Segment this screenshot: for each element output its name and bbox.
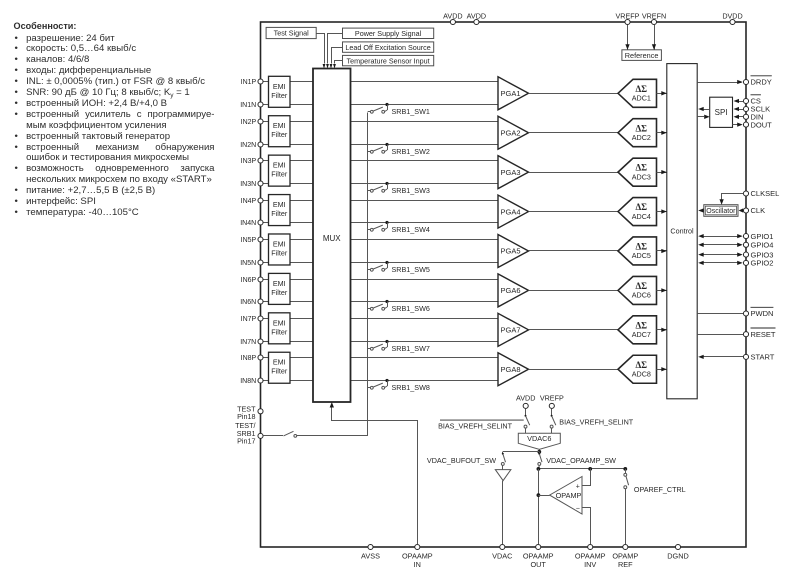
svg-text:ΔΣ: ΔΣ xyxy=(636,202,648,212)
svg-text:IN2P: IN2P xyxy=(241,119,257,126)
svg-text:SRB1_SW7: SRB1_SW7 xyxy=(392,344,430,353)
svg-text:ΔΣ: ΔΣ xyxy=(636,84,648,94)
svg-text:Power Supply Signal: Power Supply Signal xyxy=(355,29,422,38)
svg-text:IN1P: IN1P xyxy=(241,79,257,86)
pin GPIO3 xyxy=(743,250,773,259)
wire Temperature Sensor Input to MUX xyxy=(333,61,342,69)
wire START to Control xyxy=(698,355,743,359)
wire Control to GPIO1 xyxy=(698,234,743,238)
EMI filter channel 5 xyxy=(269,234,291,265)
svg-text:IN5P: IN5P xyxy=(241,237,257,244)
svg-text:PGA7: PGA7 xyxy=(500,326,520,335)
pin OPAAMP IN (bottom) xyxy=(402,544,433,569)
svg-text:PGA6: PGA6 xyxy=(500,286,520,295)
svg-text:PGA4: PGA4 xyxy=(500,207,520,216)
wire Control to PWDN xyxy=(697,313,743,315)
svg-text:IN5N: IN5N xyxy=(240,260,256,267)
EMI filter channel 3 xyxy=(269,155,291,186)
pin AVDD (top) xyxy=(443,11,462,24)
switch on TEST/SRB1 line xyxy=(263,431,368,437)
block SPI xyxy=(710,97,733,127)
wire Control to GPIO4 xyxy=(698,243,743,247)
svg-text:GPIO4: GPIO4 xyxy=(751,241,774,250)
EMI filter channel 2 xyxy=(269,116,291,147)
svg-text:AVDD: AVDD xyxy=(467,11,486,20)
svg-text:Filter: Filter xyxy=(271,288,288,297)
svg-text:+: + xyxy=(576,483,580,490)
switch SRB1_SW2 xyxy=(368,143,430,156)
pin TEST/SRB1 Pin17 xyxy=(235,421,263,445)
pin IN7P xyxy=(241,316,263,323)
svg-text:IN4P: IN4P xyxy=(241,198,257,205)
pin GPIO2 xyxy=(743,259,773,268)
pin OPAMP REF (bottom) xyxy=(612,544,638,569)
pin IN4P xyxy=(241,198,263,205)
switch BIAS_VREFH_SELINT (AVDD side) xyxy=(438,409,530,434)
amplifier PGA4 xyxy=(498,195,529,228)
wire DIN to SPI xyxy=(734,115,744,119)
adc ADC5 xyxy=(618,237,657,265)
wire Control to DRDY xyxy=(697,80,743,84)
wire VREFN to Reference xyxy=(652,25,656,50)
svg-text:IN1N: IN1N xyxy=(240,102,256,109)
wire Lead Off Excitation Source to MUX xyxy=(330,48,343,69)
wire IN7N to PGA7 (-) xyxy=(261,341,499,343)
wire SPI to Control xyxy=(698,107,710,111)
svg-text:AVSS: AVSS xyxy=(361,552,380,561)
svg-text:ΔΣ: ΔΣ xyxy=(636,320,648,330)
switch VDAC_BUFOUT_SW xyxy=(427,452,506,470)
EMI filter channel 6 xyxy=(269,273,291,304)
svg-text:VDAC_BUFOUT_SW: VDAC_BUFOUT_SW xyxy=(427,456,496,465)
wire IN3N to PGA3 (-) xyxy=(261,183,499,185)
wire OPAMP output xyxy=(538,495,549,497)
svg-text:Filter: Filter xyxy=(271,209,288,218)
svg-text:BIAS_VREFH_SELINT: BIAS_VREFH_SELINT xyxy=(559,417,634,426)
svg-text:Oscillator: Oscillator xyxy=(706,208,736,215)
svg-text:DRDY: DRDY xyxy=(751,78,772,87)
svg-text:ΔΣ: ΔΣ xyxy=(636,360,648,370)
node VREFP (internal) xyxy=(540,394,564,409)
pin IN5N xyxy=(240,260,263,267)
wire buffer to VDAC pin xyxy=(502,481,504,545)
wire OPAMP - input to OPAAMP INV xyxy=(583,508,591,545)
svg-text:IN6P: IN6P xyxy=(241,277,257,284)
switch BIAS_VREFH_SELINT (VREFP side) xyxy=(550,409,634,434)
svg-text:SRB1_SW1: SRB1_SW1 xyxy=(392,107,430,116)
svg-text:Filter: Filter xyxy=(271,130,288,139)
svg-text:ADC8: ADC8 xyxy=(632,369,651,378)
wire IN7P to PGA7 (+) xyxy=(261,318,499,320)
wire PGA1 to ADC1 xyxy=(529,93,619,95)
block Control xyxy=(667,64,697,399)
wire PGA8 to ADC8 xyxy=(529,369,619,371)
pin IN3N xyxy=(240,181,263,188)
svg-text:IN4N: IN4N xyxy=(240,220,256,227)
wire PGA2 to ADC2 xyxy=(529,132,619,134)
svg-text:CLKSEL: CLKSEL xyxy=(751,189,780,198)
amplifier PGA1 xyxy=(498,77,529,110)
op-amp OPAMP xyxy=(550,477,582,515)
amplifier PGA3 xyxy=(498,156,529,189)
pin OPAAMP OUT (bottom) xyxy=(523,544,554,569)
wire ADC7 to Control xyxy=(657,328,667,332)
svg-text:Test Signal: Test Signal xyxy=(274,29,310,38)
svg-text:SPI: SPI xyxy=(715,108,728,117)
svg-text:CLK: CLK xyxy=(751,206,766,215)
svg-text:VDAC: VDAC xyxy=(492,552,512,561)
svg-text:ΔΣ: ΔΣ xyxy=(636,281,648,291)
wire PGA6 to ADC6 xyxy=(529,290,619,292)
pin AVDD (top) xyxy=(467,11,486,24)
wire IN6P to PGA6 (+) xyxy=(261,279,499,281)
svg-text:VDAC_OPAAMP_SW: VDAC_OPAAMP_SW xyxy=(546,456,616,465)
svg-text:GPIO1: GPIO1 xyxy=(751,232,774,241)
svg-text:−: − xyxy=(576,506,580,513)
svg-text:IN3N: IN3N xyxy=(240,181,256,188)
wire ADC8 to Control xyxy=(657,367,667,371)
svg-text:Control: Control xyxy=(670,226,694,235)
svg-text:EMI: EMI xyxy=(273,279,286,288)
svg-text:EMI: EMI xyxy=(273,358,286,367)
wire ADC6 to Control xyxy=(657,288,667,292)
switch OPAREF_CTRL xyxy=(624,469,686,544)
pin VREFN (top) xyxy=(642,11,666,24)
pin CLKSEL xyxy=(743,189,779,198)
svg-text:PGA1: PGA1 xyxy=(500,89,520,98)
pin IN6N xyxy=(240,299,263,306)
wire CLK to Oscillator xyxy=(739,208,744,212)
switch SRB1_SW5 xyxy=(368,261,430,274)
pin GPIO4 xyxy=(743,241,773,250)
adc ADC7 xyxy=(618,316,657,344)
wire VREFP to Reference xyxy=(625,25,629,50)
pin IN2P xyxy=(241,119,263,126)
pin OPAAMP INV (bottom) xyxy=(575,544,606,569)
wire Control to RESET xyxy=(697,334,743,336)
svg-text:EMI: EMI xyxy=(273,239,286,248)
EMI filter channel 1 xyxy=(269,76,291,107)
wire PGA5 to ADC5 xyxy=(529,250,619,252)
svg-text:Reference: Reference xyxy=(625,51,659,60)
node AVDD (internal) xyxy=(516,394,535,409)
pin IN7N xyxy=(240,339,263,346)
wire IN1P to PGA1 (+) xyxy=(261,81,499,83)
svg-text:MUX: MUX xyxy=(323,234,341,243)
wire IN8P to PGA8 (+) xyxy=(261,357,499,359)
chip outline xyxy=(261,22,747,547)
svg-text:SRB1_SW4: SRB1_SW4 xyxy=(392,225,430,234)
svg-text:EMI: EMI xyxy=(273,161,286,170)
svg-text:IN6N: IN6N xyxy=(240,299,256,306)
svg-text:DVDD: DVDD xyxy=(722,11,742,20)
pin CLK xyxy=(743,206,765,215)
pin CS xyxy=(743,95,760,106)
svg-text:Filter: Filter xyxy=(271,170,288,179)
svg-text:IN: IN xyxy=(414,560,421,569)
wire opamp positive rail xyxy=(537,467,628,471)
wire IN2N to PGA2 (-) xyxy=(261,144,499,146)
wire ADC4 to Control xyxy=(657,209,667,213)
svg-text:EMI: EMI xyxy=(273,200,286,209)
dac VDAC6 xyxy=(518,433,560,449)
svg-text:OPAMP: OPAMP xyxy=(556,491,582,500)
svg-text:SRB1_SW6: SRB1_SW6 xyxy=(392,304,430,313)
svg-text:IN7P: IN7P xyxy=(241,316,257,323)
pin SCLK xyxy=(743,105,770,114)
pin IN3P xyxy=(241,158,263,165)
wire ADC2 to Control xyxy=(657,131,667,135)
pin IN4N xyxy=(240,220,263,227)
svg-text:Filter: Filter xyxy=(271,91,288,100)
switch SRB1_SW4 xyxy=(368,221,430,234)
wire VDAC6 output to VDAC_BUFOUT_SW xyxy=(503,451,540,453)
wire SPI to DOUT xyxy=(733,122,743,126)
block Test Signal xyxy=(266,27,316,38)
svg-text:ΔΣ: ΔΣ xyxy=(636,123,648,133)
svg-text:BIAS_VREFH_SELINT: BIAS_VREFH_SELINT xyxy=(438,422,513,431)
wire ADC1 to Control xyxy=(657,91,667,95)
svg-text:Filter: Filter xyxy=(271,248,288,257)
svg-text:SRB1_SW3: SRB1_SW3 xyxy=(392,186,430,195)
svg-text:IN7N: IN7N xyxy=(240,339,256,346)
adc ADC2 xyxy=(618,119,657,147)
svg-text:RESET: RESET xyxy=(751,330,776,339)
pin PWDN xyxy=(743,307,773,318)
svg-text:OUT: OUT xyxy=(530,560,546,569)
EMI filter channel 7 xyxy=(269,313,291,344)
wire SCLK to SPI xyxy=(734,107,744,111)
wire Control to GPIO3 xyxy=(698,252,743,256)
wire IN3P to PGA3 (+) xyxy=(261,160,499,162)
adc ADC1 xyxy=(618,79,657,107)
svg-text:START: START xyxy=(751,353,775,362)
wire ADC3 to Control xyxy=(657,170,667,174)
amplifier PGA7 xyxy=(498,313,529,346)
pin DVDD (top) xyxy=(722,11,742,24)
svg-text:VREFP: VREFP xyxy=(616,11,640,20)
svg-text:ΔΣ: ΔΣ xyxy=(636,163,648,173)
wire Power Supply Signal to MUX xyxy=(326,34,342,69)
switch SRB1_SW8 xyxy=(368,379,430,392)
wire IN5N to PGA5 (-) xyxy=(261,262,499,264)
block Lead Off Excitation Source xyxy=(343,42,434,52)
wire node to OPAAMP OUT xyxy=(537,469,541,544)
svg-text:PGA2: PGA2 xyxy=(500,128,520,137)
svg-text:ADC4: ADC4 xyxy=(632,212,651,221)
wire Control to GPIO2 xyxy=(698,261,743,265)
block Power Supply Signal xyxy=(343,28,434,38)
switch SRB1_SW6 xyxy=(368,300,430,313)
svg-text:DOUT: DOUT xyxy=(751,120,773,129)
svg-text:ADC1: ADC1 xyxy=(632,94,651,103)
svg-text:ADC6: ADC6 xyxy=(632,291,651,300)
switch SRB1_SW7 xyxy=(368,340,430,353)
svg-text:EMI: EMI xyxy=(273,82,286,91)
pin VDAC (bottom) xyxy=(492,544,512,560)
switch VDAC_OPAAMP_SW xyxy=(538,452,616,469)
svg-text:IN8N: IN8N xyxy=(240,378,256,385)
wire OPAAMP IN to MUX xyxy=(330,402,418,545)
pin DGND (bottom) xyxy=(667,544,689,560)
pin DOUT xyxy=(743,120,772,129)
svg-text:Temperature Sensor Input: Temperature Sensor Input xyxy=(347,56,430,65)
SRB1 bus wire xyxy=(367,113,369,436)
EMI filter channel 8 xyxy=(269,352,291,383)
svg-text:Pin18: Pin18 xyxy=(237,412,255,421)
svg-text:GPIO2: GPIO2 xyxy=(751,259,774,268)
pin DIN xyxy=(743,113,763,122)
svg-text:VREFP: VREFP xyxy=(540,394,564,403)
svg-text:SRB1_SW8: SRB1_SW8 xyxy=(392,383,430,392)
EMI filter channel 4 xyxy=(269,195,291,226)
svg-text:Filter: Filter xyxy=(271,367,288,376)
svg-text:ΔΣ: ΔΣ xyxy=(636,242,648,252)
buffer amplifier (VDAC) xyxy=(495,470,511,481)
adc ADC3 xyxy=(618,158,657,186)
pin IN1N xyxy=(240,102,263,109)
svg-text:AVDD: AVDD xyxy=(516,394,535,403)
svg-text:INV: INV xyxy=(584,560,596,569)
pin AVSS (bottom) xyxy=(361,544,380,560)
wire Test Signal to MUX xyxy=(317,34,326,69)
wire PGA3 to ADC3 xyxy=(529,172,619,174)
amplifier PGA2 xyxy=(498,116,529,149)
adc ADC6 xyxy=(618,276,657,304)
wire IN4N to PGA4 (-) xyxy=(261,222,499,224)
pin IN6P xyxy=(241,277,263,284)
amplifier PGA5 xyxy=(498,234,529,267)
svg-text:IN3P: IN3P xyxy=(241,158,257,165)
svg-text:OPAREF_CTRL: OPAREF_CTRL xyxy=(634,485,686,494)
svg-text:ADC3: ADC3 xyxy=(632,172,651,181)
svg-text:AVDD: AVDD xyxy=(443,11,462,20)
adc ADC4 xyxy=(618,198,657,226)
wire IN6N to PGA6 (-) xyxy=(261,301,499,303)
pin RESET xyxy=(743,328,775,339)
svg-text:PGA3: PGA3 xyxy=(500,168,520,177)
wire OPAMP + input xyxy=(583,469,591,486)
wire IN1N to PGA1 (-) xyxy=(261,104,499,106)
adc ADC8 xyxy=(618,355,657,383)
pin START xyxy=(743,353,774,362)
svg-text:SRB1_SW2: SRB1_SW2 xyxy=(392,147,430,156)
pin GPIO1 xyxy=(743,232,773,241)
switch SRB1_SW3 xyxy=(368,182,430,195)
pin DRDY xyxy=(743,76,771,87)
svg-text:ADC5: ADC5 xyxy=(632,251,651,260)
svg-text:DGND: DGND xyxy=(667,552,689,561)
wire IN2P to PGA2 (+) xyxy=(261,121,499,123)
pin IN8N xyxy=(240,378,263,385)
svg-text:Filter: Filter xyxy=(271,327,288,336)
wire IN8N to PGA8 (-) xyxy=(261,380,499,382)
svg-text:Lead Off Excitation Source: Lead Off Excitation Source xyxy=(345,43,430,52)
mux MUX xyxy=(313,69,351,403)
wire CLKSEL to Oscillator xyxy=(719,194,743,205)
pin IN1P xyxy=(241,79,263,86)
wire PGA4 to ADC4 xyxy=(529,211,619,213)
svg-text:SRB1_SW5: SRB1_SW5 xyxy=(392,265,430,274)
svg-text:PWDN: PWDN xyxy=(751,309,774,318)
pin IN8P xyxy=(241,355,263,362)
block Oscillator xyxy=(704,205,738,217)
switch SRB1_SW1 xyxy=(368,103,430,116)
pin IN2N xyxy=(240,142,263,149)
svg-text:VREFN: VREFN xyxy=(642,11,666,20)
wire CS to SPI xyxy=(734,99,744,103)
svg-text:VDAC6: VDAC6 xyxy=(527,434,551,443)
pin TEST Pin18 xyxy=(237,405,263,422)
wire ADC5 to Control xyxy=(657,249,667,253)
pin IN5P xyxy=(241,237,263,244)
wire PGA7 to ADC7 xyxy=(529,329,619,331)
svg-text:EMI: EMI xyxy=(273,121,286,130)
svg-text:PGA5: PGA5 xyxy=(500,247,520,256)
block Reference xyxy=(622,50,662,61)
svg-text:IN8P: IN8P xyxy=(241,355,257,362)
amplifier PGA8 xyxy=(498,353,529,386)
amplifier PGA6 xyxy=(498,274,529,307)
block Temperature Sensor Input xyxy=(343,55,434,65)
svg-text:EMI: EMI xyxy=(273,318,286,327)
svg-text:PGA8: PGA8 xyxy=(500,365,520,374)
svg-text:ADC7: ADC7 xyxy=(632,330,651,339)
svg-text:Pin17: Pin17 xyxy=(237,437,255,446)
node VDAC6 output xyxy=(537,449,541,453)
pin VREFP (top) xyxy=(616,11,640,24)
svg-text:REF: REF xyxy=(618,560,633,569)
svg-text:ADC2: ADC2 xyxy=(632,133,651,142)
svg-text:IN2N: IN2N xyxy=(240,142,256,149)
wire IN5P to PGA5 (+) xyxy=(261,239,499,241)
wire Control to SPI xyxy=(697,115,710,119)
wire Oscillator to Control xyxy=(698,208,704,212)
wire IN4P to PGA4 (+) xyxy=(261,200,499,202)
